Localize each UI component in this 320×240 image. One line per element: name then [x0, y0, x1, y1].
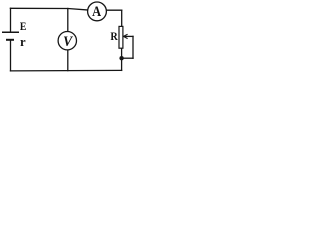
wire voltmeter branch upper [67, 9, 69, 32]
ammeter U-A circle [88, 2, 107, 21]
svg-text:A: A [92, 3, 101, 19]
wire top-right from ammeter to corner [106, 9, 121, 11]
battery short plate [6, 39, 14, 41]
wire slider return vertical [132, 36, 134, 58]
wire bottom horizontal [11, 69, 122, 72]
wire junction down to bottom wire [121, 58, 123, 70]
wire slider return horizontal [122, 57, 133, 59]
ammeter label A [92, 3, 101, 19]
voltmeter U-V circle [58, 32, 76, 50]
svg-text:E: E [20, 20, 26, 33]
resistor R body [119, 26, 123, 48]
voltmeter label V [63, 34, 74, 49]
wire voltmeter branch lower [67, 50, 69, 71]
svg-text:r: r [20, 35, 26, 49]
wire top-left horizontal [10, 8, 88, 10]
wire resistor bottom to junction [121, 48, 123, 58]
battery long plate [2, 31, 19, 33]
battery E r (cell) [2, 32, 19, 40]
svg-text:R: R [110, 30, 118, 43]
junction node dot [119, 56, 123, 60]
wire left vertical upper [10, 8, 12, 31]
wire right vertical into resistor [121, 10, 123, 26]
wire left vertical lower [10, 40, 12, 71]
label R [110, 30, 118, 43]
label E (emf) [20, 20, 26, 33]
wire slider arrow shaft [125, 35, 133, 37]
slider arrowhead [124, 34, 128, 38]
